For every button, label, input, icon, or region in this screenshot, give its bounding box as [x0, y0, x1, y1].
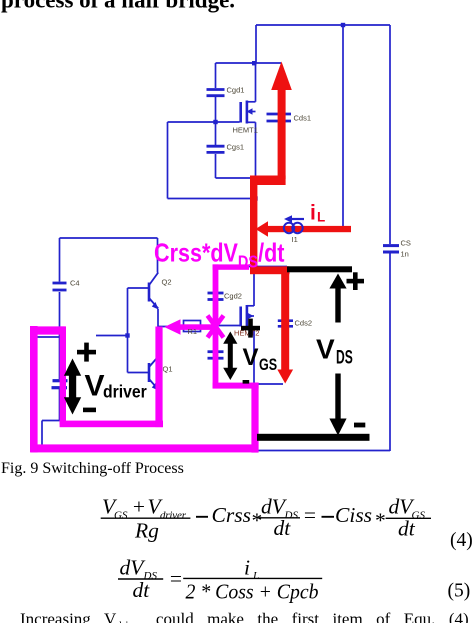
svg-text:Cds1: Cds1 — [294, 114, 312, 123]
svg-text:(4): (4) — [450, 530, 473, 551]
svg-text:GS: GS — [114, 510, 128, 522]
svg-text:*: * — [251, 509, 262, 533]
svg-text:Rg: Rg — [134, 519, 159, 543]
svg-text:1n: 1n — [401, 250, 409, 259]
svg-text:Increasing Vdriver could make: Increasing Vdriver could make the first … — [20, 610, 469, 623]
svg-text:Crss*dVDS/dt: Crss*dVDS/dt — [154, 238, 284, 271]
svg-text:Cgd2: Cgd2 — [224, 292, 242, 301]
svg-text:V: V — [316, 334, 335, 365]
svg-text:I1: I1 — [292, 235, 298, 244]
svg-text:=: = — [303, 503, 318, 527]
svg-text:Q2: Q2 — [162, 278, 172, 287]
svg-text:dV: dV — [120, 556, 147, 580]
svg-text:dt: dt — [274, 516, 292, 540]
svg-text:CS: CS — [401, 239, 411, 248]
svg-text:HEMT1: HEMT1 — [233, 126, 258, 135]
svg-text:i: i — [310, 202, 316, 225]
svg-text:V: V — [243, 344, 259, 371]
svg-text:Ciss: Ciss — [335, 503, 372, 527]
svg-text:Cds2: Cds2 — [295, 319, 313, 328]
svg-text:*: * — [374, 509, 385, 533]
svg-text:Q1: Q1 — [163, 365, 173, 374]
svg-text:i: i — [244, 556, 250, 580]
svg-text:process of a half bridge.: process of a half bridge. — [1, 0, 235, 13]
svg-text:driver: driver — [103, 382, 147, 402]
svg-text:GS: GS — [259, 356, 277, 374]
svg-text:driver: driver — [160, 510, 187, 522]
svg-text:C4: C4 — [70, 279, 80, 288]
svg-text:Cgs1: Cgs1 — [227, 143, 245, 152]
svg-text:+: + — [132, 495, 147, 519]
svg-text:=: = — [169, 567, 184, 591]
svg-text:2 * Coss + Cpcb: 2 * Coss + Cpcb — [186, 580, 319, 604]
svg-text:dt: dt — [398, 517, 416, 541]
svg-text:DS: DS — [336, 347, 353, 369]
svg-text:Fig. 9 Switching-off Process: Fig. 9 Switching-off Process — [1, 460, 184, 477]
svg-text:Crss: Crss — [212, 503, 251, 527]
svg-text:R1: R1 — [188, 327, 198, 336]
svg-text:dt: dt — [133, 578, 151, 602]
svg-text:V: V — [85, 370, 105, 403]
svg-text:Cgd1: Cgd1 — [227, 86, 245, 95]
svg-text:(5): (5) — [448, 581, 471, 602]
svg-text:L: L — [317, 210, 325, 225]
